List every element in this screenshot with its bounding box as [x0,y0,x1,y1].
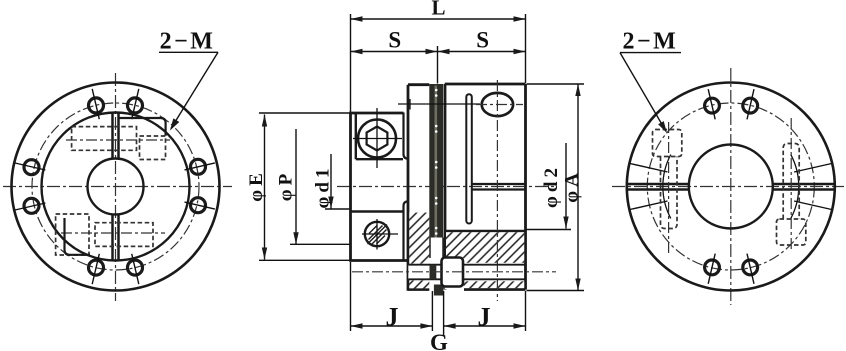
bolt head [442,258,464,287]
dimension J J G [351,325,433,327]
main horizontal centerline (right view) [612,186,844,188]
bolt head pocket (white) [445,258,464,289]
disc pack section at bolt (dark) [430,265,437,280]
left hub clamp screw cross-section (hatched circle) [365,222,389,246]
right hub disc-bolt hole (ellipse on cylinder) [482,93,513,116]
svg-text:2−M: 2−M [160,29,216,55]
right view bore circle d2 [689,145,773,229]
svg-text:G: G [430,330,448,351]
left hub slit slot (section) with rounded cap [404,201,409,260]
disc-bolt hole vertical centerline [496,80,498,301]
right view outer circle (OD A) [627,83,835,291]
extension lines [259,14,584,336]
bolt shaft lines [408,264,441,266]
right view slit (horizontal double line) [628,184,835,190]
left view outer circle (flange OD) [12,83,220,291]
right view bolt circle (dash-dot) [647,103,814,270]
main horizontal centerline (left + middle views) [3,186,232,188]
svg-text:J: J [386,302,399,331]
dimension phi E [264,115,266,260]
right hub hatch (section) [446,232,524,262]
left hub flange face [407,85,410,291]
svg-text:φP: φP [276,170,297,201]
right hub right face [524,84,527,290]
left hub flange bottom edge [408,288,429,291]
bolt hole through right hub [463,264,526,266]
left view bore circle [88,159,144,215]
dimension S S [351,51,526,53]
left hub bore wall (section, bottom half) [351,210,404,213]
left hub relief groove (top) [404,113,409,159]
disc-bolt centerline (horizontal, upper) [398,103,480,105]
left hub left face [349,113,352,261]
left hub top edge (OD E) [349,112,403,115]
left hub screw pocket left edge [355,113,357,159]
left view disc bolt holes (8x) with radial tick marks [24,98,206,275]
left view top clamp screw axis (dash-dot) [66,139,170,141]
right hub slit slot (rounded) [466,94,472,223]
right view left clamp screw (hidden, dashed): head pocket [653,130,682,157]
left view vertical centerline [115,73,117,301]
left view bottom clamp screw axis (dash-dot) [61,232,165,234]
svg-text:S: S [388,28,401,53]
left hub bottom edge (OD E) [349,259,407,262]
left view bolt circle (dash-dot) [32,103,199,270]
left view bottom-left pocket visible edge (solid bracket) [65,218,91,255]
right hub bottom edge (OD A) [464,288,526,291]
svg-text:φE: φE [246,169,267,202]
right view hub boss arcs [791,155,799,219]
dimension phi P [295,129,297,244]
disc pack outline below (section area) [429,238,431,259]
left hub flange hatch (section) [409,213,429,264]
svg-text:L: L [431,0,445,20]
right view right clamp screw axis [790,118,792,251]
left hub screw pocket bottom edge [356,158,403,160]
right view right clamp screw (hidden, dashed): head pocket [777,219,806,245]
dimension phi d1 [330,154,332,209]
right hub left face [444,84,447,290]
left view bottom clamp screw hidden pocket (dashed) [56,214,153,255]
right view left clamp screw hole [661,157,678,229]
left hub hex socket clamp screw head [358,120,396,158]
left view top clamp screw hidden pocket (dashed) [72,127,166,160]
right hub slit (horizontal double line) [472,183,526,185]
svg-text:S: S [476,28,489,53]
right view left clamp screw axis [668,122,670,255]
disc pack bottom stub [434,285,444,296]
left view inner circle (hub boss) [42,113,190,261]
dimension phi d2 [565,143,567,229]
left view top-right pocket visible edge (solid bracket) [119,118,166,136]
right view spot-face pocket edges (radial lines) [630,164,832,210]
right view vertical centerline [730,68,732,305]
svg-text:φd1: φd1 [313,165,334,209]
bolt centerline (dash-dot) [352,271,556,273]
svg-text:φd2: φd2 [541,164,562,208]
dimension L [351,18,526,20]
disc pack (laminated discs, dark) [429,84,443,238]
bolt shaft hole white area [408,265,441,280]
right hub bore wall d2 (section) [445,230,526,233]
svg-text:φA: φA [562,169,583,203]
dimension phi A [577,84,579,291]
right hub top edge (OD A) [445,83,526,86]
left view clamp slit (vertical double line) [113,113,119,260]
svg-text:2−M: 2−M [622,29,678,55]
right view right clamp screw hole [783,144,799,220]
svg-text:J: J [478,302,491,331]
right view disc bolt holes (4x) with ticks [705,98,758,275]
left hub flange top edge [408,83,429,86]
